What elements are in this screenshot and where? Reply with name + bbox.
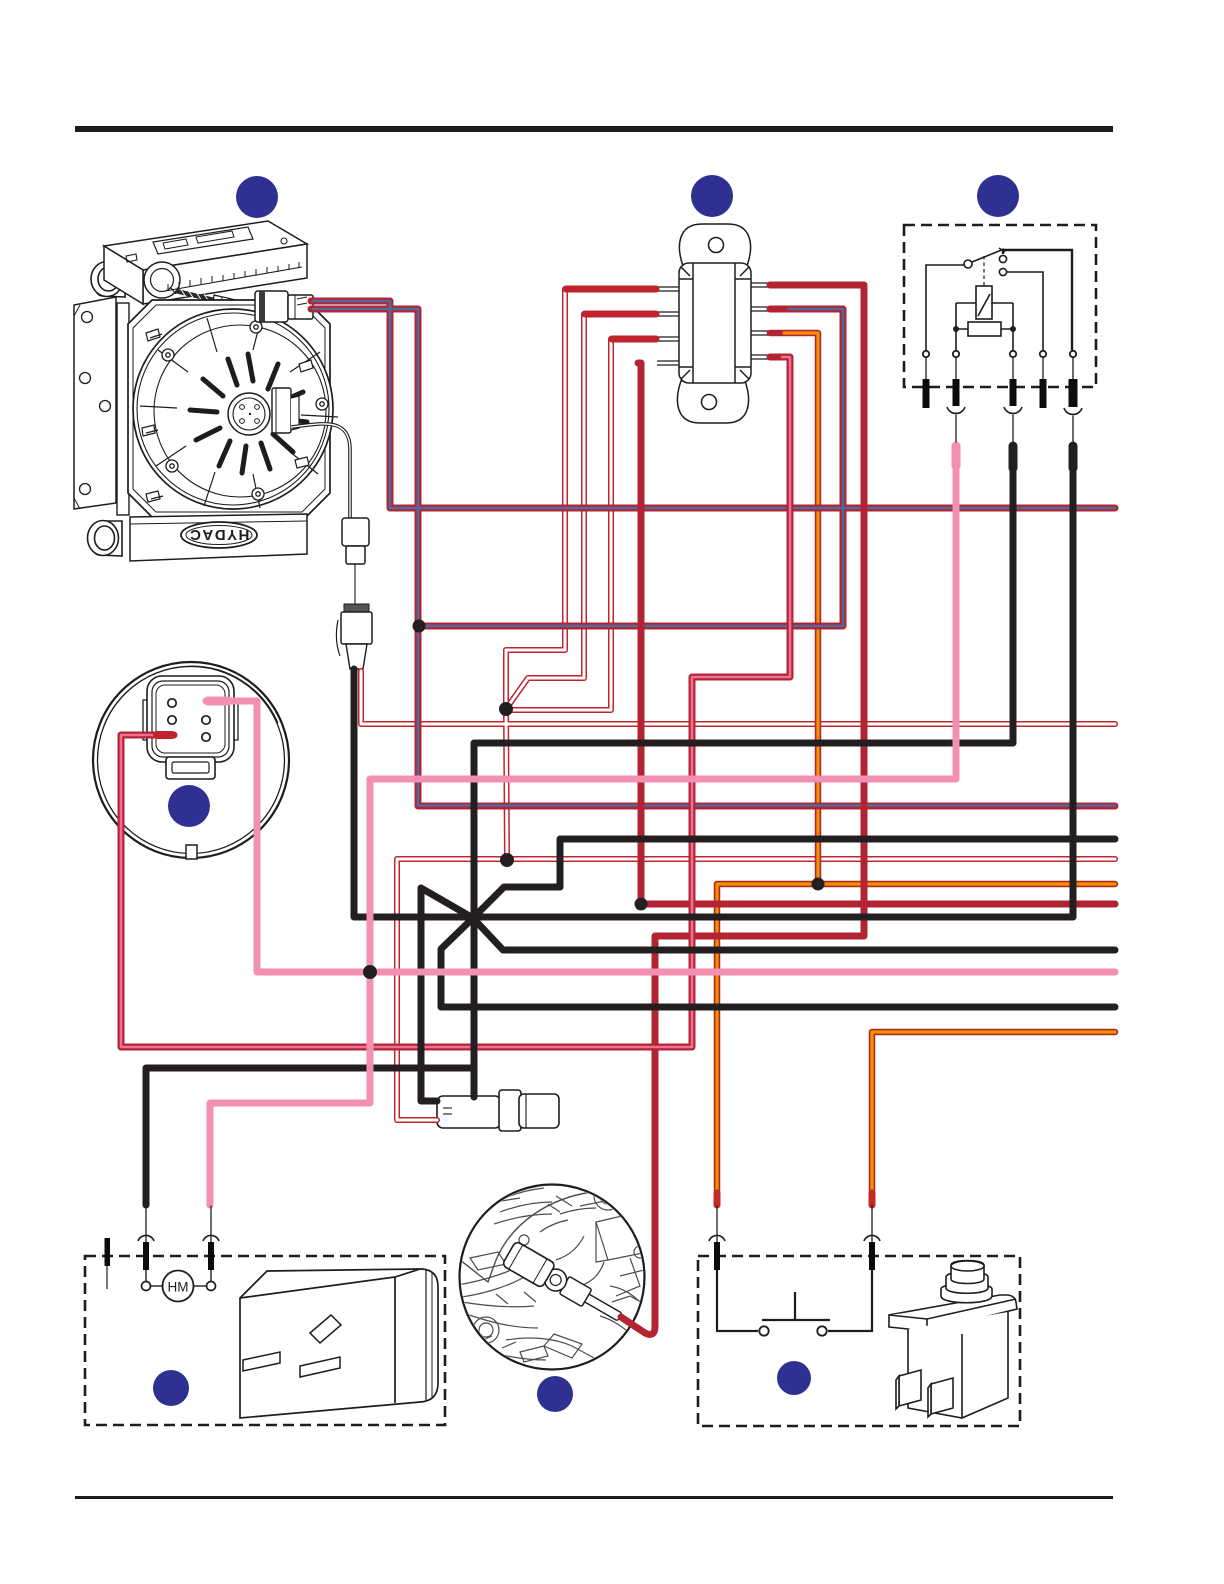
- svg-text:HM: HM: [168, 1280, 189, 1295]
- svg-text:HYDAC: HYDAC: [189, 526, 250, 543]
